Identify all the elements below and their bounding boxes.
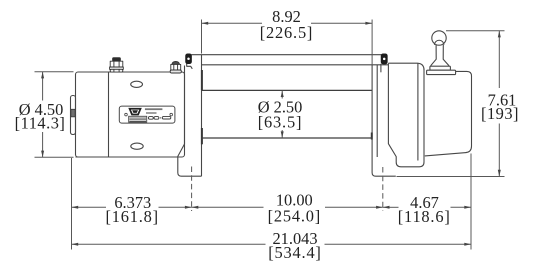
knob collar arc <box>434 40 444 45</box>
dim 4.67 line <box>383 206 399 208</box>
right extension line bottom <box>470 154 472 250</box>
step under right clip <box>380 64 382 73</box>
barcode block <box>129 116 147 122</box>
21.043 arrows <box>72 243 79 246</box>
6.373 arrows <box>72 206 79 209</box>
label small text lines <box>145 108 163 110</box>
arrowheads <box>41 22 501 246</box>
right support inner line <box>376 65 378 157</box>
motor left boss strip <box>71 96 76 135</box>
clutch lever knob <box>432 31 446 45</box>
tie bar bottom line <box>202 64 389 66</box>
label plate outline <box>119 106 175 123</box>
tie bar top line <box>191 54 381 56</box>
motor end-cap seam <box>108 72 110 157</box>
clutch lever base plate lower <box>427 70 456 74</box>
dim 7.61 extension bottom <box>397 176 505 178</box>
svg-text:[534.4]: [534.4] <box>268 243 321 262</box>
gear housing end cap <box>451 71 471 152</box>
4.50 arrows <box>41 72 44 79</box>
svg-text:[63.5]: [63.5] <box>258 112 302 131</box>
gear housing rear bottom slope <box>425 153 467 156</box>
dim 8.92 line <box>202 22 263 24</box>
svg-text:[254.0]: [254.0] <box>268 207 321 226</box>
left extension line bottom <box>71 158 73 250</box>
dim 7.61 line <box>498 31 500 88</box>
motor bolt 1 <box>110 58 124 72</box>
right slot pill <box>162 116 171 119</box>
left support plate left edge and foot flare <box>178 66 202 177</box>
svg-text:[118.6]: [118.6] <box>398 207 451 226</box>
2.50 arrows <box>281 91 284 97</box>
dim 4.50 line <box>42 72 44 101</box>
8.92 arrows <box>202 22 209 25</box>
dim 10.00 line <box>192 206 264 208</box>
foot centerline right <box>382 167 384 211</box>
clutch lever stem <box>431 45 449 66</box>
gear housing left edge and flare <box>388 63 424 167</box>
motor bolt 2 <box>170 61 181 73</box>
oval hole upper <box>131 81 143 87</box>
svg-text:[226.5]: [226.5] <box>260 23 313 42</box>
dim 21.043 line <box>72 243 266 245</box>
svg-text:[161.8]: [161.8] <box>105 207 158 226</box>
tie rod clip left (black) <box>186 54 192 64</box>
dim 6.373 line <box>72 206 107 208</box>
10.00 arrows <box>192 206 199 209</box>
tie rod clip right (black) <box>381 54 387 64</box>
dim 8.92 extension lines <box>201 20 203 54</box>
label plate screws <box>125 113 128 116</box>
drum flange dark segment lower <box>201 128 203 144</box>
boss clip detail <box>71 109 75 117</box>
oval hole lower <box>131 143 143 149</box>
4.67 arrows <box>383 206 390 209</box>
svg-text:[114.3]: [114.3] <box>15 114 66 133</box>
motor housing body <box>76 72 185 157</box>
warn logo badge <box>128 108 142 116</box>
drum bottom line <box>202 137 373 139</box>
dim 2.50 arrow stems <box>281 91 283 99</box>
step bracket under left clip <box>187 64 193 69</box>
7.61 arrows <box>498 31 501 38</box>
gear housing top edge <box>388 63 424 160</box>
drum flange dark segment right <box>371 133 373 140</box>
label plate inner details <box>128 108 171 122</box>
motor bottom edge <box>76 156 178 158</box>
foot centerline left <box>191 167 193 212</box>
small pills middle <box>148 116 170 119</box>
dim 7.61 extension top <box>446 30 505 32</box>
drum top line <box>202 89 373 91</box>
clutch lever base plate upper <box>430 66 451 70</box>
drum flange dark segment upper <box>201 70 203 90</box>
svg-text:[193]: [193] <box>481 104 519 123</box>
left support plate right edge <box>201 55 203 177</box>
right support plate left edge with foot <box>372 65 396 176</box>
dim 4.50 extension lines <box>35 71 74 73</box>
